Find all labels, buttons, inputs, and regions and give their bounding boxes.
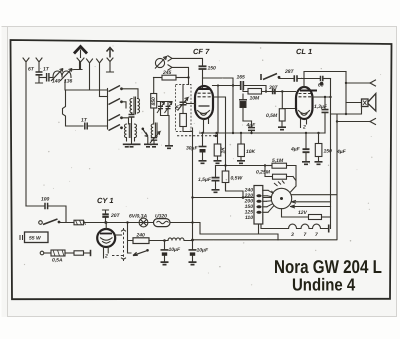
svg-text:1T: 1T (81, 118, 88, 124)
selector tap wires (263, 190, 268, 212)
rectifier tube CY1 (97, 229, 115, 247)
svg-text:55 W: 55 W (29, 236, 42, 242)
svg-text:0,25M: 0,25M (256, 170, 271, 176)
capacitor 28T (294, 75, 297, 81)
terminal Y6 with stub (107, 58, 114, 72)
tube pins (204, 119, 209, 133)
barretter U320 (154, 219, 171, 227)
heater CL1 (299, 111, 310, 114)
tuning gang dashed box (176, 85, 192, 132)
svg-text:1,3µF: 1,3µF (314, 104, 328, 110)
wire coil left down (65, 80, 108, 90)
cap 1,5uF (215, 166, 217, 178)
svg-text:0,5M: 0,5M (266, 113, 278, 119)
svg-text:CF 7: CF 7 (193, 47, 210, 56)
heater feed lines (292, 194, 337, 196)
svg-text:7: 7 (304, 232, 307, 238)
resistor 12V (282, 209, 309, 217)
terminal Y3 (77, 58, 84, 70)
switch S3 (109, 115, 121, 121)
dashed gang link (177, 135, 216, 137)
connector jack J2 (168, 65, 172, 70)
svg-text:4µF: 4µF (290, 147, 301, 153)
svg-text:150: 150 (208, 66, 217, 72)
CY1 smoothing cap 20T (104, 221, 106, 223)
grid wire to gang (187, 103, 196, 105)
svg-text:10µF: 10µF (197, 248, 209, 254)
speaker return wire (331, 107, 362, 240)
mains lead 2 (40, 251, 44, 255)
antenna arrow A1 (74, 47, 87, 54)
svg-text:240: 240 (136, 233, 146, 239)
trimmer C-t2 (167, 102, 169, 106)
capacitor under T1 (129, 115, 135, 118)
resistor 240 with switch (128, 223, 134, 254)
svg-text:2: 2 (302, 125, 306, 131)
coil T2 (125, 124, 137, 142)
resistor 0,5W (222, 171, 229, 183)
cathode (199, 105, 210, 107)
speaker LS (346, 102, 362, 104)
cap 50uF right (305, 133, 307, 149)
terminal Y1 (23, 58, 29, 206)
anode bar CL1 (300, 90, 317, 92)
svg-text:4µF: 4µF (336, 149, 347, 155)
resistor 10K (240, 133, 242, 144)
svg-text:CL 1: CL 1 (296, 47, 312, 56)
wire top grid line (173, 58, 203, 65)
connector jack J1 (168, 56, 172, 61)
terminal Y2 (36, 58, 42, 72)
scan speckle noise (24, 45, 381, 285)
capacitor 6T (36, 72, 43, 75)
variable capacitor C-v1 (182, 85, 184, 102)
mains jog to bottom rail (193, 223, 278, 240)
svg-text:10µF: 10µF (169, 247, 181, 253)
mains switch S7 (39, 221, 43, 225)
dial lamp 6V/0,3A (139, 218, 148, 227)
capacitor 60 (321, 76, 323, 81)
power box 55W (25, 232, 49, 243)
grid resistor 0,5M (281, 90, 283, 92)
capacitor 1T lower (85, 123, 87, 130)
svg-text:4µF: 4µF (246, 123, 257, 129)
CL1 pins (301, 119, 307, 128)
grid dashes (198, 93, 211, 97)
right vertical bus (345, 72, 347, 115)
plate decoupling wire (312, 96, 331, 98)
filter choke (149, 238, 193, 241)
svg-text:1K: 1K (221, 147, 227, 154)
coupling capacitor 165 (213, 85, 241, 87)
trimmer C-t1 (158, 102, 172, 106)
svg-text:110: 110 (245, 215, 253, 221)
wire y165 (216, 165, 266, 167)
svg-text:Undine 4: Undine 4 (292, 275, 355, 295)
screen wire (217, 86, 219, 134)
coil T1 antenna transformer (130, 97, 140, 114)
grid dashes CL1 (299, 94, 312, 97)
ground G2 (123, 144, 131, 147)
ground G6 (165, 146, 173, 149)
resistor 150 (318, 133, 320, 144)
fork terminal F2 (336, 120, 338, 122)
ground G11 (302, 162, 310, 165)
capacitor under L3 with arrow (151, 138, 157, 141)
switch S4 (109, 125, 121, 131)
top cap blob (320, 82, 323, 85)
wire jack2 to gang (173, 67, 189, 84)
terminal Y5 (97, 59, 103, 97)
electrolytic 10uF a (163, 239, 166, 242)
svg-text:3: 3 (291, 232, 294, 238)
ground G3 (133, 143, 141, 145)
antenna coil L1 variometer (53, 71, 71, 78)
anode bar (199, 88, 211, 90)
svg-text:10M: 10M (250, 96, 261, 102)
capacitor 1,3uF (324, 97, 326, 109)
switch S2 (109, 99, 121, 105)
oscillator coil L2 (153, 78, 155, 94)
svg-text:165: 165 (237, 75, 246, 81)
svg-text:28T: 28T (284, 69, 295, 75)
svg-text:6V/0,3A: 6V/0,3A (129, 214, 147, 220)
resistor 245 (154, 77, 163, 79)
ground G5 (150, 144, 158, 147)
heater chain (261, 225, 289, 229)
ground G10 (237, 161, 245, 164)
svg-text:1T: 1T (43, 67, 50, 73)
svg-text:0,5W: 0,5W (231, 176, 244, 182)
oscillator coil L3 (151, 123, 157, 138)
resistor R-gang (180, 114, 187, 127)
ganged switch dashed link (112, 228, 124, 261)
ground G1 (128, 144, 136, 147)
bottom rail (193, 239, 337, 241)
ground G7 (278, 127, 286, 130)
capacitor 100 (45, 203, 48, 210)
cathode resistor 1K (217, 133, 219, 144)
svg-text:10K: 10K (246, 149, 256, 155)
svg-text:6T: 6T (28, 67, 35, 73)
wave switch S5 (142, 128, 145, 131)
resistor 0,1M (265, 165, 272, 167)
main schematic border frame (11, 40, 392, 299)
ground G8 (199, 161, 207, 164)
hatch marks (274, 181, 285, 187)
terminal Y4 (87, 59, 93, 90)
plate lead top (304, 72, 346, 88)
wire coil top link (71, 61, 82, 70)
resistor 10M (248, 89, 262, 95)
ground G9 (214, 161, 222, 164)
band switch S6 (260, 74, 262, 80)
pickup symbol (155, 58, 164, 67)
svg-text:30T: 30T (269, 85, 279, 91)
svg-text:7K: 7K (175, 104, 181, 111)
ground G4 (144, 144, 152, 147)
svg-text:7: 7 (315, 232, 318, 238)
wire Y5 row (100, 96, 108, 98)
svg-text:150: 150 (324, 149, 333, 155)
fork terminal F1 (345, 82, 347, 84)
svg-text:140: 140 (52, 79, 61, 85)
ground G13 (212, 190, 220, 193)
B+ vertical (192, 128, 194, 240)
svg-text:CY 1: CY 1 (97, 196, 114, 205)
selector contact blobs (256, 194, 261, 214)
switch S1 (109, 86, 121, 92)
svg-text:20T: 20T (110, 213, 121, 219)
wire with jog to 1T row (63, 90, 84, 126)
resistor 0,25M (265, 166, 273, 177)
svg-text:2: 2 (104, 254, 108, 260)
plate wire right (203, 78, 234, 190)
grid capacitor 150 (199, 66, 207, 69)
ground G12 (315, 162, 323, 165)
antenna arrow A2 (107, 48, 114, 58)
series cap 4uF (251, 121, 253, 127)
svg-text:245: 245 (162, 70, 172, 76)
electrolytic small (240, 102, 246, 108)
svg-text:U320: U320 (155, 214, 167, 220)
switch bus (107, 89, 109, 130)
svg-text:850: 850 (151, 97, 157, 106)
selector plug circle (271, 188, 291, 208)
selector feed line (193, 197, 272, 199)
cathode cap 30uF (202, 133, 204, 146)
svg-text:5,1M: 5,1M (272, 158, 284, 164)
capacitor 1T series (39, 77, 46, 79)
shorting switch S8 (146, 249, 149, 252)
heater arcs (198, 111, 210, 114)
long left feed (26, 205, 44, 207)
svg-text:12V: 12V (298, 210, 308, 216)
svg-text:100: 100 (41, 197, 50, 203)
fuse resistor 100 (74, 220, 84, 225)
